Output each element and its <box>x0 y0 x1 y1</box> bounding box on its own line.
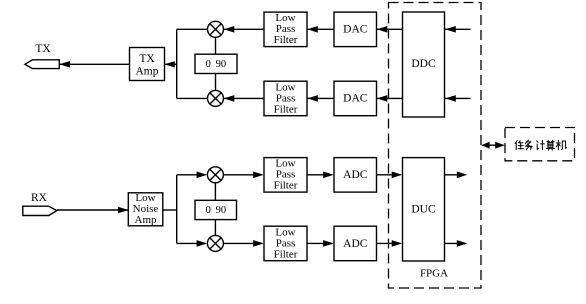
wire RX antenna to LNA <box>57 207 129 213</box>
wire DUC output top <box>445 172 468 179</box>
wire phase box to mixer RX Q <box>214 220 216 236</box>
wire splitter vertical <box>176 175 178 244</box>
converter ADC1 <box>334 158 377 193</box>
wire ADC1 to DUC <box>377 172 403 179</box>
wire DDC to DAC2 <box>377 95 403 102</box>
bus FPGA to mission computer (double arrow) <box>481 142 505 149</box>
glyph 算 <box>546 140 555 150</box>
wire input to DDC bottom <box>445 95 471 102</box>
FPGA dashed boundary <box>389 3 482 289</box>
wire DAC1 to LPF1 <box>307 26 334 33</box>
filter LPF4 (RX Q) <box>264 226 307 261</box>
mission computer label: 任务计算机 glyph strokes <box>515 140 566 150</box>
svg-text:Filter: Filter <box>274 103 298 115</box>
mixer RX I (top) <box>207 167 223 183</box>
wire mixer Q output <box>177 97 208 99</box>
mission computer dashed box <box>505 128 575 161</box>
wire mixer RX I to phase box <box>214 183 216 201</box>
svg-text:Filter: Filter <box>274 180 298 192</box>
mixer TX I (top) <box>208 21 224 37</box>
block DUC <box>403 158 445 261</box>
svg-text:Amp: Amp <box>135 214 158 226</box>
svg-text:DAC: DAC <box>343 92 368 104</box>
converter DAC2 <box>334 81 377 116</box>
svg-text:Filter: Filter <box>274 248 298 260</box>
svg-text:Filter: Filter <box>274 34 298 46</box>
wire combiner to TX Amp <box>165 61 177 67</box>
antenna TX <box>25 60 59 69</box>
svg-text:FPGA: FPGA <box>420 267 448 279</box>
wire mixer RX Q to LPF4 <box>223 240 263 247</box>
amplifier TX Amp <box>130 48 165 81</box>
glyph 务 <box>525 140 532 150</box>
svg-text:Amp: Amp <box>136 65 159 77</box>
wire input to DDC top <box>445 26 471 33</box>
svg-text:DAC: DAC <box>343 23 368 35</box>
svg-text:0: 0 <box>206 59 211 70</box>
glyph 机 <box>556 140 566 150</box>
wire LPF2 to mixer Q <box>224 95 265 102</box>
mixer RX Q (bottom) <box>207 235 223 251</box>
svg-text:ADC: ADC <box>343 169 368 181</box>
wire DUC output bottom <box>445 240 468 247</box>
wire DAC2 to LPF2 <box>307 95 334 102</box>
svg-text:DDC: DDC <box>411 58 436 70</box>
svg-text:ADC: ADC <box>343 238 368 250</box>
wire LPF3 to ADC1 <box>307 172 334 179</box>
filter LPF3 (RX I) <box>264 158 307 193</box>
phase splitter 0/90 RX <box>195 200 237 219</box>
wire ADC2 to DUC <box>377 240 403 247</box>
wire phase box to mixer bottom <box>215 74 217 91</box>
glyph 计 <box>537 140 545 150</box>
wire combiner vertical <box>176 29 178 98</box>
antenna RX <box>23 206 57 215</box>
wire splitter to mixer RX I <box>177 172 207 179</box>
svg-text:90: 90 <box>216 59 227 70</box>
glyph 任 <box>515 141 523 150</box>
wire mixer I output <box>177 28 208 30</box>
block DDC <box>403 12 445 117</box>
converter ADC2 <box>334 226 377 261</box>
filter LPF2 (TX Q) <box>264 81 307 116</box>
amplifier Low Noise Amp <box>128 192 163 226</box>
svg-text:RX: RX <box>31 192 48 204</box>
svg-text:0: 0 <box>206 205 211 216</box>
filter LPF1 (TX I) <box>264 12 307 47</box>
wire mixer RX I to LPF3 <box>223 172 263 179</box>
wire LPF4 to ADC2 <box>307 240 334 247</box>
converter DAC1 <box>334 12 377 47</box>
svg-text:TX: TX <box>35 43 51 55</box>
wire mixer to phase box top <box>215 37 217 54</box>
svg-text:90: 90 <box>216 205 227 216</box>
wire splitter to mixer RX Q <box>177 240 207 247</box>
wire TX Amp to TX antenna <box>59 61 129 68</box>
wire DDC to DAC1 <box>377 26 403 33</box>
phase splitter 0/90 TX <box>195 54 237 73</box>
svg-text:DUC: DUC <box>411 204 436 216</box>
mixer TX Q (bottom) <box>208 90 224 106</box>
wire LNA to splitter <box>163 209 177 211</box>
wire LPF1 to mixer I <box>224 26 265 33</box>
svg-text:TX: TX <box>139 53 155 65</box>
